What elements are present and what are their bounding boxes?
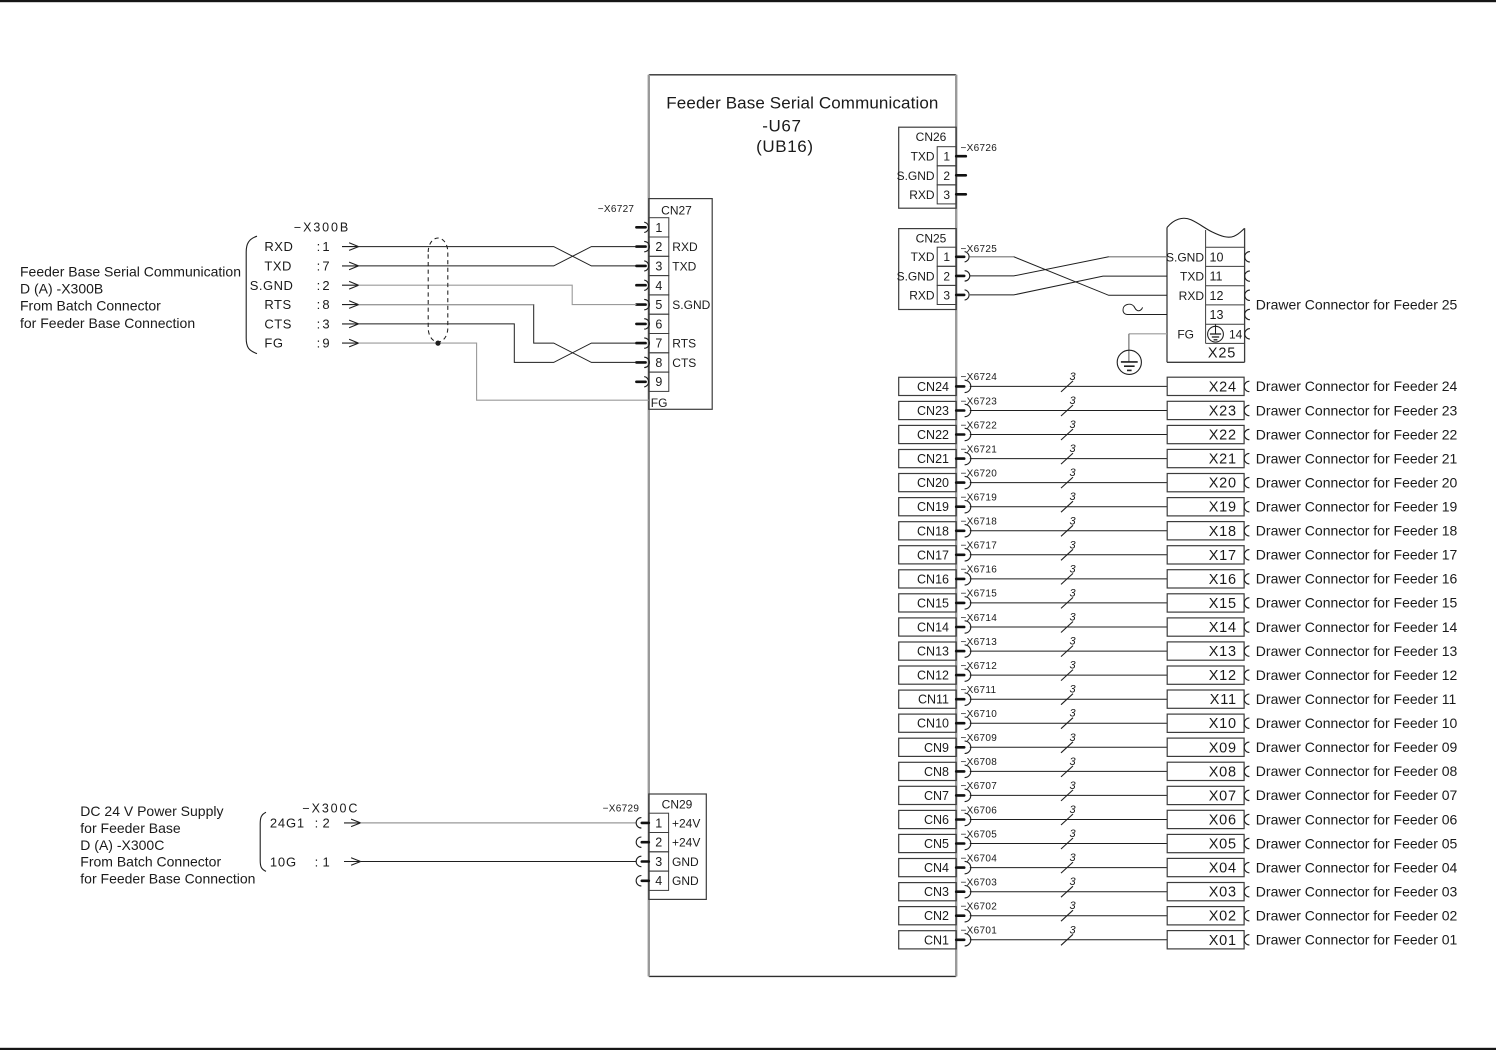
- svg-text:12: 12: [1210, 289, 1224, 303]
- svg-text:S.GND: S.GND: [250, 278, 294, 293]
- drawer connector X06: [1167, 810, 1244, 828]
- svg-text:3: 3: [1069, 563, 1076, 575]
- svg-text:1: 1: [655, 221, 662, 235]
- svg-text:2: 2: [655, 836, 662, 850]
- wire CN24 to X24: [970, 385, 1167, 387]
- drawer connector X13: [1167, 642, 1244, 660]
- svg-text:X04: X04: [1209, 861, 1237, 877]
- svg-text:3: 3: [1069, 684, 1076, 696]
- drawer connector X19: [1167, 498, 1244, 516]
- wire CN15 to X15: [970, 602, 1167, 604]
- svg-text:−X6726: −X6726: [961, 143, 998, 154]
- wire CN19 to X19: [970, 506, 1167, 508]
- svg-text:X24: X24: [1209, 379, 1237, 395]
- svg-text:CN27: CN27: [661, 204, 692, 218]
- junction dot on FG wire (shield): [435, 341, 440, 346]
- svg-text:CN1: CN1: [924, 933, 949, 947]
- svg-text:Drawer Connector for Feeder 16: Drawer Connector for Feeder 16: [1256, 571, 1458, 587]
- svg-text:3: 3: [1069, 587, 1076, 599]
- svg-text:X03: X03: [1209, 885, 1237, 901]
- svg-text:Drawer Connector for Feeder 04: Drawer Connector for Feeder 04: [1256, 859, 1458, 875]
- svg-text:X15: X15: [1209, 596, 1237, 612]
- drawer connector X12: [1167, 666, 1244, 684]
- svg-text:−X6722: −X6722: [961, 420, 998, 431]
- svg-text:CN7: CN7: [924, 789, 949, 803]
- arrow for 24G1: [344, 822, 361, 824]
- svg-text:X25: X25: [1208, 346, 1236, 362]
- CN27 pin 3: [636, 261, 648, 271]
- CN26 pin 2: [956, 174, 966, 177]
- connector CN11: [899, 690, 957, 708]
- svg-text:3: 3: [1069, 876, 1076, 888]
- wire CN10 to X10: [970, 722, 1167, 724]
- svg-text:−X6724: −X6724: [961, 372, 998, 383]
- arrow for S.GND: [342, 284, 359, 286]
- svg-text:3: 3: [943, 188, 950, 202]
- svg-text:CN10: CN10: [917, 717, 949, 731]
- wire CN12 to X12: [970, 674, 1167, 676]
- wire CN25 pin1 TXD to X25 pin 12: [970, 257, 1167, 296]
- svg-text:S.GND: S.GND: [672, 298, 710, 312]
- connector CN1: [899, 931, 957, 949]
- connector CN10: [899, 714, 957, 732]
- CN11 pin: [956, 698, 964, 701]
- svg-text::: :: [315, 854, 319, 869]
- X25 pin 12 mating arc: [1245, 290, 1250, 300]
- svg-text:Drawer Connector for Feeder 18: Drawer Connector for Feeder 18: [1256, 523, 1458, 539]
- X01 mating arc: [1244, 935, 1249, 945]
- connector CN24: [899, 377, 957, 395]
- drawer connector X16: [1167, 570, 1244, 588]
- X15 mating arc: [1244, 598, 1249, 608]
- CN27 pin 6: [636, 319, 649, 329]
- bus width slash 3: [1061, 381, 1073, 392]
- CN27 pin 5: [636, 299, 649, 309]
- drawer connector X15: [1167, 594, 1244, 612]
- wire CN16 to X16: [970, 578, 1167, 580]
- wire CN23 to X23: [970, 410, 1167, 412]
- svg-text:CN5: CN5: [924, 837, 949, 851]
- bus width slash 3: [1061, 886, 1073, 897]
- bottom frame bar: [0, 1048, 1496, 1050]
- note: DC 24 V power supply description: [80, 803, 255, 887]
- svg-text:CN25: CN25: [916, 231, 947, 245]
- svg-text:Drawer Connector for Feeder 10: Drawer Connector for Feeder 10: [1256, 715, 1458, 731]
- bus width slash 3: [1061, 405, 1073, 416]
- X20 mating arc: [1244, 477, 1249, 487]
- wire CN2 to X02: [970, 915, 1167, 917]
- svg-text:Feeder Base Serial Communicati: Feeder Base Serial Communication: [666, 93, 938, 112]
- svg-text:D (A) -X300B: D (A) -X300B: [20, 281, 103, 297]
- wire CN7 to X07: [970, 794, 1167, 796]
- connector CN21: [899, 450, 957, 468]
- svg-text::: :: [317, 336, 321, 351]
- wire X25 FG to earth ground: [1129, 333, 1167, 335]
- svg-text:2: 2: [943, 269, 950, 283]
- bus width slash 3: [1061, 670, 1073, 681]
- svg-text:3: 3: [1069, 660, 1076, 672]
- svg-text:11: 11: [1210, 270, 1223, 284]
- drawer connector X03: [1167, 883, 1244, 901]
- svg-text:CN21: CN21: [917, 452, 949, 466]
- svg-text:CN18: CN18: [917, 524, 949, 538]
- svg-text:Drawer Connector for Feeder 21: Drawer Connector for Feeder 21: [1256, 450, 1458, 466]
- svg-text:TXD: TXD: [911, 250, 935, 264]
- svg-text:3: 3: [1069, 612, 1076, 624]
- connector CN18: [899, 522, 957, 540]
- svg-text:X12: X12: [1209, 668, 1237, 684]
- svg-text:5: 5: [655, 298, 662, 312]
- drawer connector X17: [1167, 546, 1244, 564]
- protective earth symbol in pin 14 cell: [1208, 324, 1224, 342]
- X21 mating arc: [1244, 453, 1249, 463]
- CN25 pin 1: [956, 252, 969, 262]
- svg-text:3: 3: [1069, 756, 1076, 768]
- wire RTS :8 to CN27 pin 8 (crossover): [359, 305, 637, 363]
- svg-text:3: 3: [1069, 539, 1076, 551]
- CN17 pin: [956, 553, 964, 556]
- X13 mating arc: [1244, 646, 1249, 656]
- svg-text:CN24: CN24: [917, 380, 949, 394]
- svg-text:RXD: RXD: [909, 288, 935, 302]
- cable shield (dashed oval): [428, 238, 448, 342]
- drawer connector X10: [1167, 714, 1244, 732]
- X19 mating arc: [1244, 502, 1249, 512]
- X22 mating arc: [1244, 429, 1249, 439]
- X09 mating arc: [1244, 742, 1249, 752]
- CN9 pin: [956, 746, 964, 749]
- svg-text:Drawer Connector for Feeder 20: Drawer Connector for Feeder 20: [1256, 474, 1458, 490]
- svg-text:X09: X09: [1209, 740, 1237, 756]
- connector CN6: [899, 810, 957, 828]
- X02 mating arc: [1244, 911, 1249, 921]
- svg-text:1: 1: [943, 150, 950, 164]
- CN15 pin: [956, 602, 964, 605]
- svg-text:TXD: TXD: [672, 259, 696, 273]
- svg-text:2: 2: [943, 169, 950, 183]
- CN27 pin 8: [636, 357, 649, 367]
- svg-text:Drawer Connector for Feeder 15: Drawer Connector for Feeder 15: [1256, 595, 1458, 611]
- CN27 pin 4: [636, 280, 648, 290]
- svg-text:−X6729: −X6729: [603, 804, 640, 815]
- drawer connector X09: [1167, 738, 1244, 756]
- svg-text:FG: FG: [651, 396, 668, 410]
- svg-text:−X6708: −X6708: [961, 757, 998, 768]
- wire CN18 to X18: [970, 530, 1167, 532]
- connector CN26: [897, 127, 957, 208]
- svg-text:X18: X18: [1209, 524, 1237, 540]
- svg-text:3: 3: [1069, 900, 1076, 912]
- X17 mating arc: [1244, 550, 1249, 560]
- svg-text:CTS: CTS: [672, 356, 696, 370]
- svg-text:Drawer Connector for Feeder 05: Drawer Connector for Feeder 05: [1256, 835, 1458, 851]
- X25 pin 14 mating arc: [1245, 329, 1250, 339]
- svg-text::: :: [317, 258, 321, 273]
- drawer connector X24: [1167, 377, 1244, 395]
- connector CN3: [899, 883, 957, 901]
- CN21 pin: [956, 457, 964, 460]
- svg-text:2: 2: [323, 816, 330, 831]
- svg-text:Drawer Connector for Feeder 14: Drawer Connector for Feeder 14: [1256, 619, 1458, 635]
- svg-text:3: 3: [1069, 636, 1076, 648]
- coiled lead into X25 pin 13: [1127, 314, 1167, 316]
- svg-text:7: 7: [655, 337, 662, 351]
- CN24 pin: [956, 385, 964, 388]
- svg-text:1: 1: [323, 854, 330, 869]
- svg-text:CN15: CN15: [917, 596, 949, 610]
- CN13 pin: [956, 650, 964, 653]
- svg-text:Drawer Connector for Feeder 12: Drawer Connector for Feeder 12: [1256, 667, 1458, 683]
- CN26 pin 3: [956, 193, 966, 196]
- svg-text:CN26: CN26: [916, 130, 947, 144]
- svg-text:10G: 10G: [270, 854, 297, 869]
- CN1 pin: [956, 938, 964, 941]
- svg-text:X21: X21: [1209, 452, 1237, 468]
- drawer connector X22: [1167, 425, 1244, 443]
- svg-text:−X6727: −X6727: [598, 204, 635, 215]
- note: Feeder Base Serial Communication source description: [20, 263, 241, 330]
- bus width slash 3: [1061, 718, 1073, 729]
- svg-text:CN11: CN11: [918, 693, 949, 707]
- svg-text:CTS: CTS: [264, 316, 292, 331]
- svg-text:4: 4: [655, 874, 662, 888]
- svg-text:3: 3: [1069, 780, 1076, 792]
- svg-text:GND: GND: [672, 855, 699, 869]
- wire CN11 to X11: [970, 698, 1167, 700]
- svg-text:−X6704: −X6704: [961, 853, 998, 864]
- svg-text:S.GND: S.GND: [897, 169, 935, 183]
- svg-text:−X6717: −X6717: [961, 541, 998, 552]
- wire CN5 to X05: [970, 843, 1167, 845]
- svg-text:−X6709: −X6709: [961, 733, 998, 744]
- arrow for RTS: [342, 304, 359, 306]
- svg-text:1: 1: [655, 816, 662, 830]
- svg-text:3: 3: [1069, 443, 1076, 455]
- svg-text:Drawer Connector for Feeder 03: Drawer Connector for Feeder 03: [1256, 884, 1458, 900]
- bus width slash 3: [1061, 501, 1073, 512]
- svg-text:Drawer Connector for Feeder 19: Drawer Connector for Feeder 19: [1256, 499, 1458, 515]
- svg-text:TXD: TXD: [911, 150, 935, 164]
- arrow for FG: [342, 342, 359, 344]
- wire FG :9 to CN27 FG: [359, 343, 649, 400]
- X03 mating arc: [1244, 887, 1249, 897]
- arrow for 10G: [344, 861, 361, 863]
- svg-text:CN14: CN14: [917, 621, 949, 635]
- CN27 pin 7: [636, 338, 649, 348]
- CN27 pin 1: [636, 222, 648, 232]
- svg-text:X17: X17: [1209, 548, 1237, 564]
- wire CN21 to X21: [970, 458, 1167, 460]
- svg-text:-U67: -U67: [762, 116, 801, 135]
- svg-text:D (A) -X300C: D (A) -X300C: [80, 837, 164, 853]
- drawer connector X23: [1167, 401, 1244, 419]
- connector CN19: [899, 498, 957, 516]
- svg-text:−X6702: −X6702: [961, 902, 998, 913]
- X12 mating arc: [1244, 670, 1249, 680]
- svg-text:13: 13: [1210, 308, 1224, 322]
- drawer connector X07: [1167, 786, 1244, 804]
- bus width slash 3: [1061, 453, 1073, 464]
- svg-text:1: 1: [322, 239, 329, 254]
- bus width slash 3: [1061, 429, 1073, 440]
- bus width slash 3: [1061, 862, 1073, 873]
- svg-text:3: 3: [1069, 395, 1076, 407]
- svg-text:3: 3: [1069, 467, 1076, 479]
- svg-text:X08: X08: [1209, 764, 1237, 780]
- CN18 pin: [956, 529, 964, 532]
- svg-text:−X300B: −X300B: [294, 221, 350, 235]
- svg-text:−X6723: −X6723: [961, 396, 998, 407]
- connector CN5: [899, 834, 957, 852]
- drawer connector X01: [1167, 931, 1244, 949]
- svg-text:Drawer Connector for Feeder 07: Drawer Connector for Feeder 07: [1256, 787, 1458, 803]
- svg-text:+24V: +24V: [672, 836, 700, 850]
- svg-text:3: 3: [1069, 515, 1076, 527]
- svg-text:2: 2: [322, 278, 329, 293]
- connector CN12: [899, 666, 957, 684]
- svg-text:8: 8: [655, 356, 662, 370]
- svg-text:−X6710: −X6710: [961, 709, 998, 720]
- svg-text:RXD: RXD: [264, 239, 293, 254]
- wire CN8 to X08: [970, 770, 1167, 772]
- svg-text:3: 3: [655, 855, 662, 869]
- svg-text:3: 3: [655, 259, 662, 273]
- connector CN14: [899, 618, 957, 636]
- X06 mating arc: [1244, 814, 1249, 824]
- X10 mating arc: [1244, 718, 1249, 728]
- drawer connector X21: [1167, 449, 1244, 467]
- CN7 pin: [956, 794, 964, 797]
- X24 mating arc: [1244, 381, 1249, 391]
- brace for X300B signal group: [246, 236, 257, 353]
- wire CN22 to X22: [970, 434, 1167, 436]
- CN29 pin 4: [636, 876, 649, 887]
- svg-text:3: 3: [1069, 732, 1076, 744]
- wire TXD :7 to CN27 pin 2 (crossover): [359, 247, 637, 266]
- svg-text:−X6706: −X6706: [961, 805, 998, 816]
- drawer connector X14: [1167, 618, 1244, 636]
- connector CN4: [899, 859, 957, 877]
- X16 mating arc: [1244, 574, 1249, 584]
- CN26 pin 1: [956, 155, 966, 158]
- svg-text:FG: FG: [264, 336, 283, 351]
- svg-text:Drawer Connector for Feeder 24: Drawer Connector for Feeder 24: [1256, 378, 1458, 394]
- svg-text:−X6714: −X6714: [961, 613, 998, 624]
- svg-text:CN16: CN16: [917, 572, 949, 586]
- svg-text::: :: [315, 816, 319, 831]
- svg-text:CN8: CN8: [924, 765, 949, 779]
- svg-text:RXD: RXD: [672, 240, 698, 254]
- drawer connector X08: [1167, 762, 1244, 780]
- svg-text:Drawer Connector for Feeder 08: Drawer Connector for Feeder 08: [1256, 763, 1458, 779]
- svg-text:10: 10: [1210, 250, 1224, 264]
- X07 mating arc: [1244, 790, 1249, 800]
- svg-text:−X6718: −X6718: [961, 517, 998, 528]
- connector CN20: [899, 474, 957, 492]
- svg-text:X22: X22: [1209, 428, 1237, 444]
- CN25 pin 3: [956, 290, 969, 300]
- svg-text:−X6716: −X6716: [961, 565, 998, 576]
- bus width slash 3: [1061, 742, 1073, 753]
- CN29 pin 2: [636, 837, 649, 847]
- wire CN14 to X14: [970, 626, 1167, 628]
- svg-text:GND: GND: [672, 874, 699, 888]
- svg-text:Drawer Connector for Feeder 01: Drawer Connector for Feeder 01: [1256, 932, 1458, 948]
- drawer connector X11: [1167, 690, 1244, 708]
- CN29 pin 3: [636, 856, 649, 867]
- svg-text:−X6720: −X6720: [961, 468, 998, 479]
- CN10 pin: [956, 722, 964, 725]
- svg-text:X23: X23: [1209, 404, 1237, 420]
- svg-text:4: 4: [655, 279, 662, 293]
- CN23 pin: [956, 409, 964, 412]
- svg-text:8: 8: [322, 297, 329, 312]
- bus width slash 3: [1061, 525, 1073, 536]
- svg-text::: :: [317, 316, 321, 331]
- X23 mating arc: [1244, 405, 1249, 415]
- wire CN3 to X03: [970, 891, 1167, 893]
- svg-text::: :: [317, 278, 321, 293]
- CN6 pin: [956, 818, 964, 821]
- svg-text:RXD: RXD: [1179, 289, 1205, 303]
- svg-text:S.GND: S.GND: [1166, 250, 1204, 264]
- connector CN27: [649, 199, 712, 410]
- wire CN20 to X20: [970, 482, 1167, 484]
- earth ground symbol: [1117, 350, 1141, 374]
- CN27 pin 9: [636, 377, 648, 387]
- connector CN8: [899, 762, 957, 780]
- bus width slash 3: [1061, 814, 1073, 825]
- connector CN13: [899, 642, 957, 660]
- wire CN6 to X06: [970, 819, 1167, 821]
- svg-text::: :: [317, 239, 321, 254]
- arrow for TXD: [342, 265, 359, 267]
- connector CN17: [899, 546, 957, 564]
- svg-text:Drawer Connector for Feeder 02: Drawer Connector for Feeder 02: [1256, 908, 1458, 924]
- svg-text:3: 3: [1069, 419, 1076, 431]
- svg-text:CN29: CN29: [662, 798, 693, 812]
- svg-text:CN12: CN12: [917, 669, 949, 683]
- svg-text:CN2: CN2: [924, 909, 949, 923]
- svg-text:for Feeder Base Connection: for Feeder Base Connection: [20, 315, 195, 331]
- svg-text:RTS: RTS: [264, 297, 291, 312]
- svg-text:3: 3: [322, 316, 329, 331]
- svg-text:−X6713: −X6713: [961, 637, 998, 648]
- drawer connector X20: [1167, 474, 1244, 492]
- svg-text:FG: FG: [1177, 327, 1194, 341]
- svg-text:From Batch Connector: From Batch Connector: [20, 298, 161, 314]
- connector CN25: [897, 229, 957, 310]
- svg-text:7: 7: [322, 258, 329, 273]
- wire S.GND :2 to CN27 pin 5: [359, 285, 637, 304]
- svg-text:−X6712: −X6712: [961, 661, 998, 672]
- svg-text:3: 3: [1069, 804, 1076, 816]
- wire CN25 pin2 S.GND to X25 pin 10: [970, 257, 1167, 276]
- bus width slash 3: [1061, 549, 1073, 560]
- svg-text:−X6715: −X6715: [961, 589, 998, 600]
- svg-text:DC 24 V Power Supply: DC 24 V Power Supply: [80, 803, 223, 819]
- bus width slash 3: [1061, 573, 1073, 584]
- connector CN15: [899, 594, 957, 612]
- wire CN25 pin3 RXD to X25 pin 11: [970, 276, 1167, 295]
- svg-text:X13: X13: [1209, 644, 1237, 660]
- drawer connector X05: [1167, 834, 1244, 852]
- CN27 pin 2: [636, 241, 649, 251]
- svg-text:9: 9: [322, 336, 329, 351]
- svg-text:X07: X07: [1209, 788, 1237, 804]
- svg-text:Drawer Connector for Feeder 17: Drawer Connector for Feeder 17: [1256, 547, 1458, 563]
- connector CN7: [899, 786, 957, 804]
